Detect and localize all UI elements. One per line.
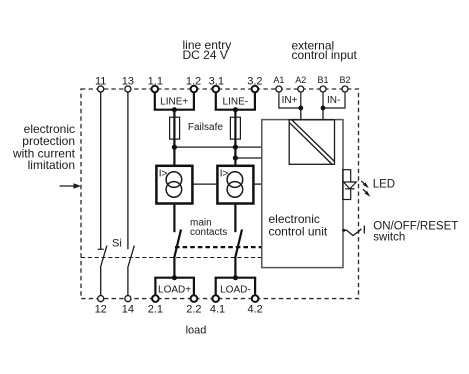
main contact K2 lower wire bbox=[234, 258, 236, 278]
node below IN- bbox=[321, 106, 326, 111]
terminal labels bottom row bbox=[95, 304, 263, 316]
node below fuse F1 bbox=[172, 145, 177, 150]
svg-text:4.2: 4.2 bbox=[247, 304, 262, 316]
label: external control input bbox=[292, 38, 358, 62]
svg-text:LOAD+: LOAD+ bbox=[158, 284, 191, 295]
wire fused LINE+ to control unit bbox=[174, 146, 261, 148]
terminal 4.1 bbox=[212, 295, 219, 302]
svg-text:14: 14 bbox=[122, 304, 134, 316]
main contact K1 blade bbox=[174, 230, 181, 258]
svg-text:limitation: limitation bbox=[28, 158, 75, 172]
svg-text:LOAD-: LOAD- bbox=[220, 284, 251, 295]
wire 13-14 lower segment bbox=[127, 267, 129, 295]
terminal 2.1 bbox=[152, 295, 159, 302]
terminal 1.2 bbox=[191, 86, 198, 93]
LINE+ input block bbox=[154, 93, 195, 110]
svg-text:contacts: contacts bbox=[190, 227, 227, 238]
wire sensor T2 to control unit bbox=[253, 183, 261, 185]
LED emission arrows bbox=[361, 181, 370, 197]
arrow into device bbox=[60, 183, 81, 189]
wire LINE+ branch down through fuse bbox=[173, 110, 175, 166]
terminal A1 bbox=[276, 86, 282, 92]
svg-text:DC 24 V: DC 24 V bbox=[183, 48, 228, 62]
contact 11/12 fixed-contact tick bbox=[98, 248, 104, 250]
svg-text:B1: B1 bbox=[317, 75, 328, 85]
trip linkage (thin dashed) bbox=[81, 257, 262, 259]
node at LOAD- bbox=[233, 275, 238, 280]
terminal 3.1 bbox=[213, 86, 220, 93]
node at LOAD+ bbox=[172, 275, 177, 280]
mechanical linkage (thick dashed) bbox=[175, 246, 262, 248]
main contact K2 blade bbox=[235, 230, 242, 258]
svg-text:IN+: IN+ bbox=[282, 95, 298, 106]
current sensor T2 (I> with CT circles) bbox=[217, 166, 253, 204]
svg-text:load: load bbox=[186, 325, 207, 337]
LOAD+ output block bbox=[154, 278, 195, 296]
wire IN- to optocoupler bbox=[322, 108, 324, 120]
optocoupler / isolation block bbox=[289, 120, 334, 165]
svg-text:switch: switch bbox=[373, 232, 405, 244]
svg-text:IN-: IN- bbox=[327, 95, 340, 106]
svg-text:A2: A2 bbox=[295, 75, 306, 85]
svg-text:4.1: 4.1 bbox=[210, 304, 225, 316]
LED D1 symbol bbox=[343, 182, 356, 189]
main contact K1 lower wire bbox=[173, 258, 175, 278]
svg-text:control input: control input bbox=[292, 48, 358, 62]
ON/OFF/RESET pushbutton S1 bbox=[342, 226, 364, 236]
node below IN+ bbox=[298, 106, 303, 111]
terminal 11 bbox=[98, 86, 104, 92]
node on LINE- branch bbox=[233, 155, 238, 160]
terminal labels top row bbox=[95, 76, 263, 88]
LOAD- output block bbox=[215, 278, 257, 296]
contact Si 11/12 moving blade bbox=[100, 246, 107, 268]
device outline (dashed border) bbox=[81, 89, 359, 299]
svg-text:Failsafe: Failsafe bbox=[188, 122, 223, 133]
terminal 13 bbox=[125, 86, 131, 92]
terminal 1.1 bbox=[152, 86, 159, 93]
LED block on control unit bbox=[343, 170, 351, 200]
terminal 12 bbox=[98, 296, 104, 302]
svg-text:Si: Si bbox=[112, 238, 122, 250]
wire between sensors T1-T2 bbox=[192, 183, 217, 185]
terminal 4.2 bbox=[252, 295, 259, 302]
wire 13-14 upper segment bbox=[127, 92, 129, 249]
terminal 3.2 bbox=[252, 86, 259, 93]
terminal 14 bbox=[125, 296, 131, 302]
fuse F1 (failsafe) bbox=[170, 117, 180, 139]
svg-text:LINE+: LINE+ bbox=[160, 96, 188, 107]
main contact K2 upper wire bbox=[234, 204, 236, 233]
main contact K1 upper wire bbox=[173, 204, 175, 233]
svg-text:LINE-: LINE- bbox=[223, 96, 249, 107]
IN- input block bbox=[322, 92, 345, 108]
label: main contacts bbox=[190, 218, 227, 239]
node crossing on LINE- branch bbox=[233, 145, 238, 150]
wire 11-12 upper segment bbox=[100, 92, 102, 249]
wire 11-12 lower segment bbox=[100, 267, 102, 295]
wire IN+ to optocoupler bbox=[300, 108, 302, 120]
terminal A2 bbox=[298, 86, 304, 92]
LINE- input block bbox=[215, 93, 256, 110]
label: electronic control unit bbox=[269, 212, 328, 239]
current sensor T1 (I> with CT circles) bbox=[156, 166, 192, 204]
label: line entry DC 24 V bbox=[183, 38, 232, 62]
electronic control unit U1 bbox=[262, 120, 343, 268]
node below LINE- bbox=[233, 107, 238, 112]
terminal 2.2 bbox=[191, 295, 198, 302]
label: ON/OFF/RESET switch bbox=[373, 220, 458, 243]
svg-text:A1: A1 bbox=[273, 75, 284, 85]
svg-text:B2: B2 bbox=[339, 75, 350, 85]
svg-text:2.2: 2.2 bbox=[186, 304, 201, 316]
svg-text:12: 12 bbox=[95, 304, 107, 316]
terminal B2 bbox=[342, 86, 348, 92]
svg-text:LED: LED bbox=[373, 179, 395, 191]
svg-text:2.1: 2.1 bbox=[148, 304, 163, 316]
IN+ input block bbox=[278, 92, 301, 108]
contact Si 13/14 moving blade bbox=[128, 246, 135, 268]
wire LINE- branch down through fuse bbox=[234, 110, 236, 166]
svg-text:control unit: control unit bbox=[269, 225, 328, 239]
node below LINE+ bbox=[172, 107, 177, 112]
fuse F2 (failsafe) bbox=[230, 117, 240, 139]
terminal B1 bbox=[320, 86, 326, 92]
wire fused LINE- to control unit bbox=[235, 157, 261, 159]
label: electronic protection with current limitation bbox=[12, 122, 76, 172]
